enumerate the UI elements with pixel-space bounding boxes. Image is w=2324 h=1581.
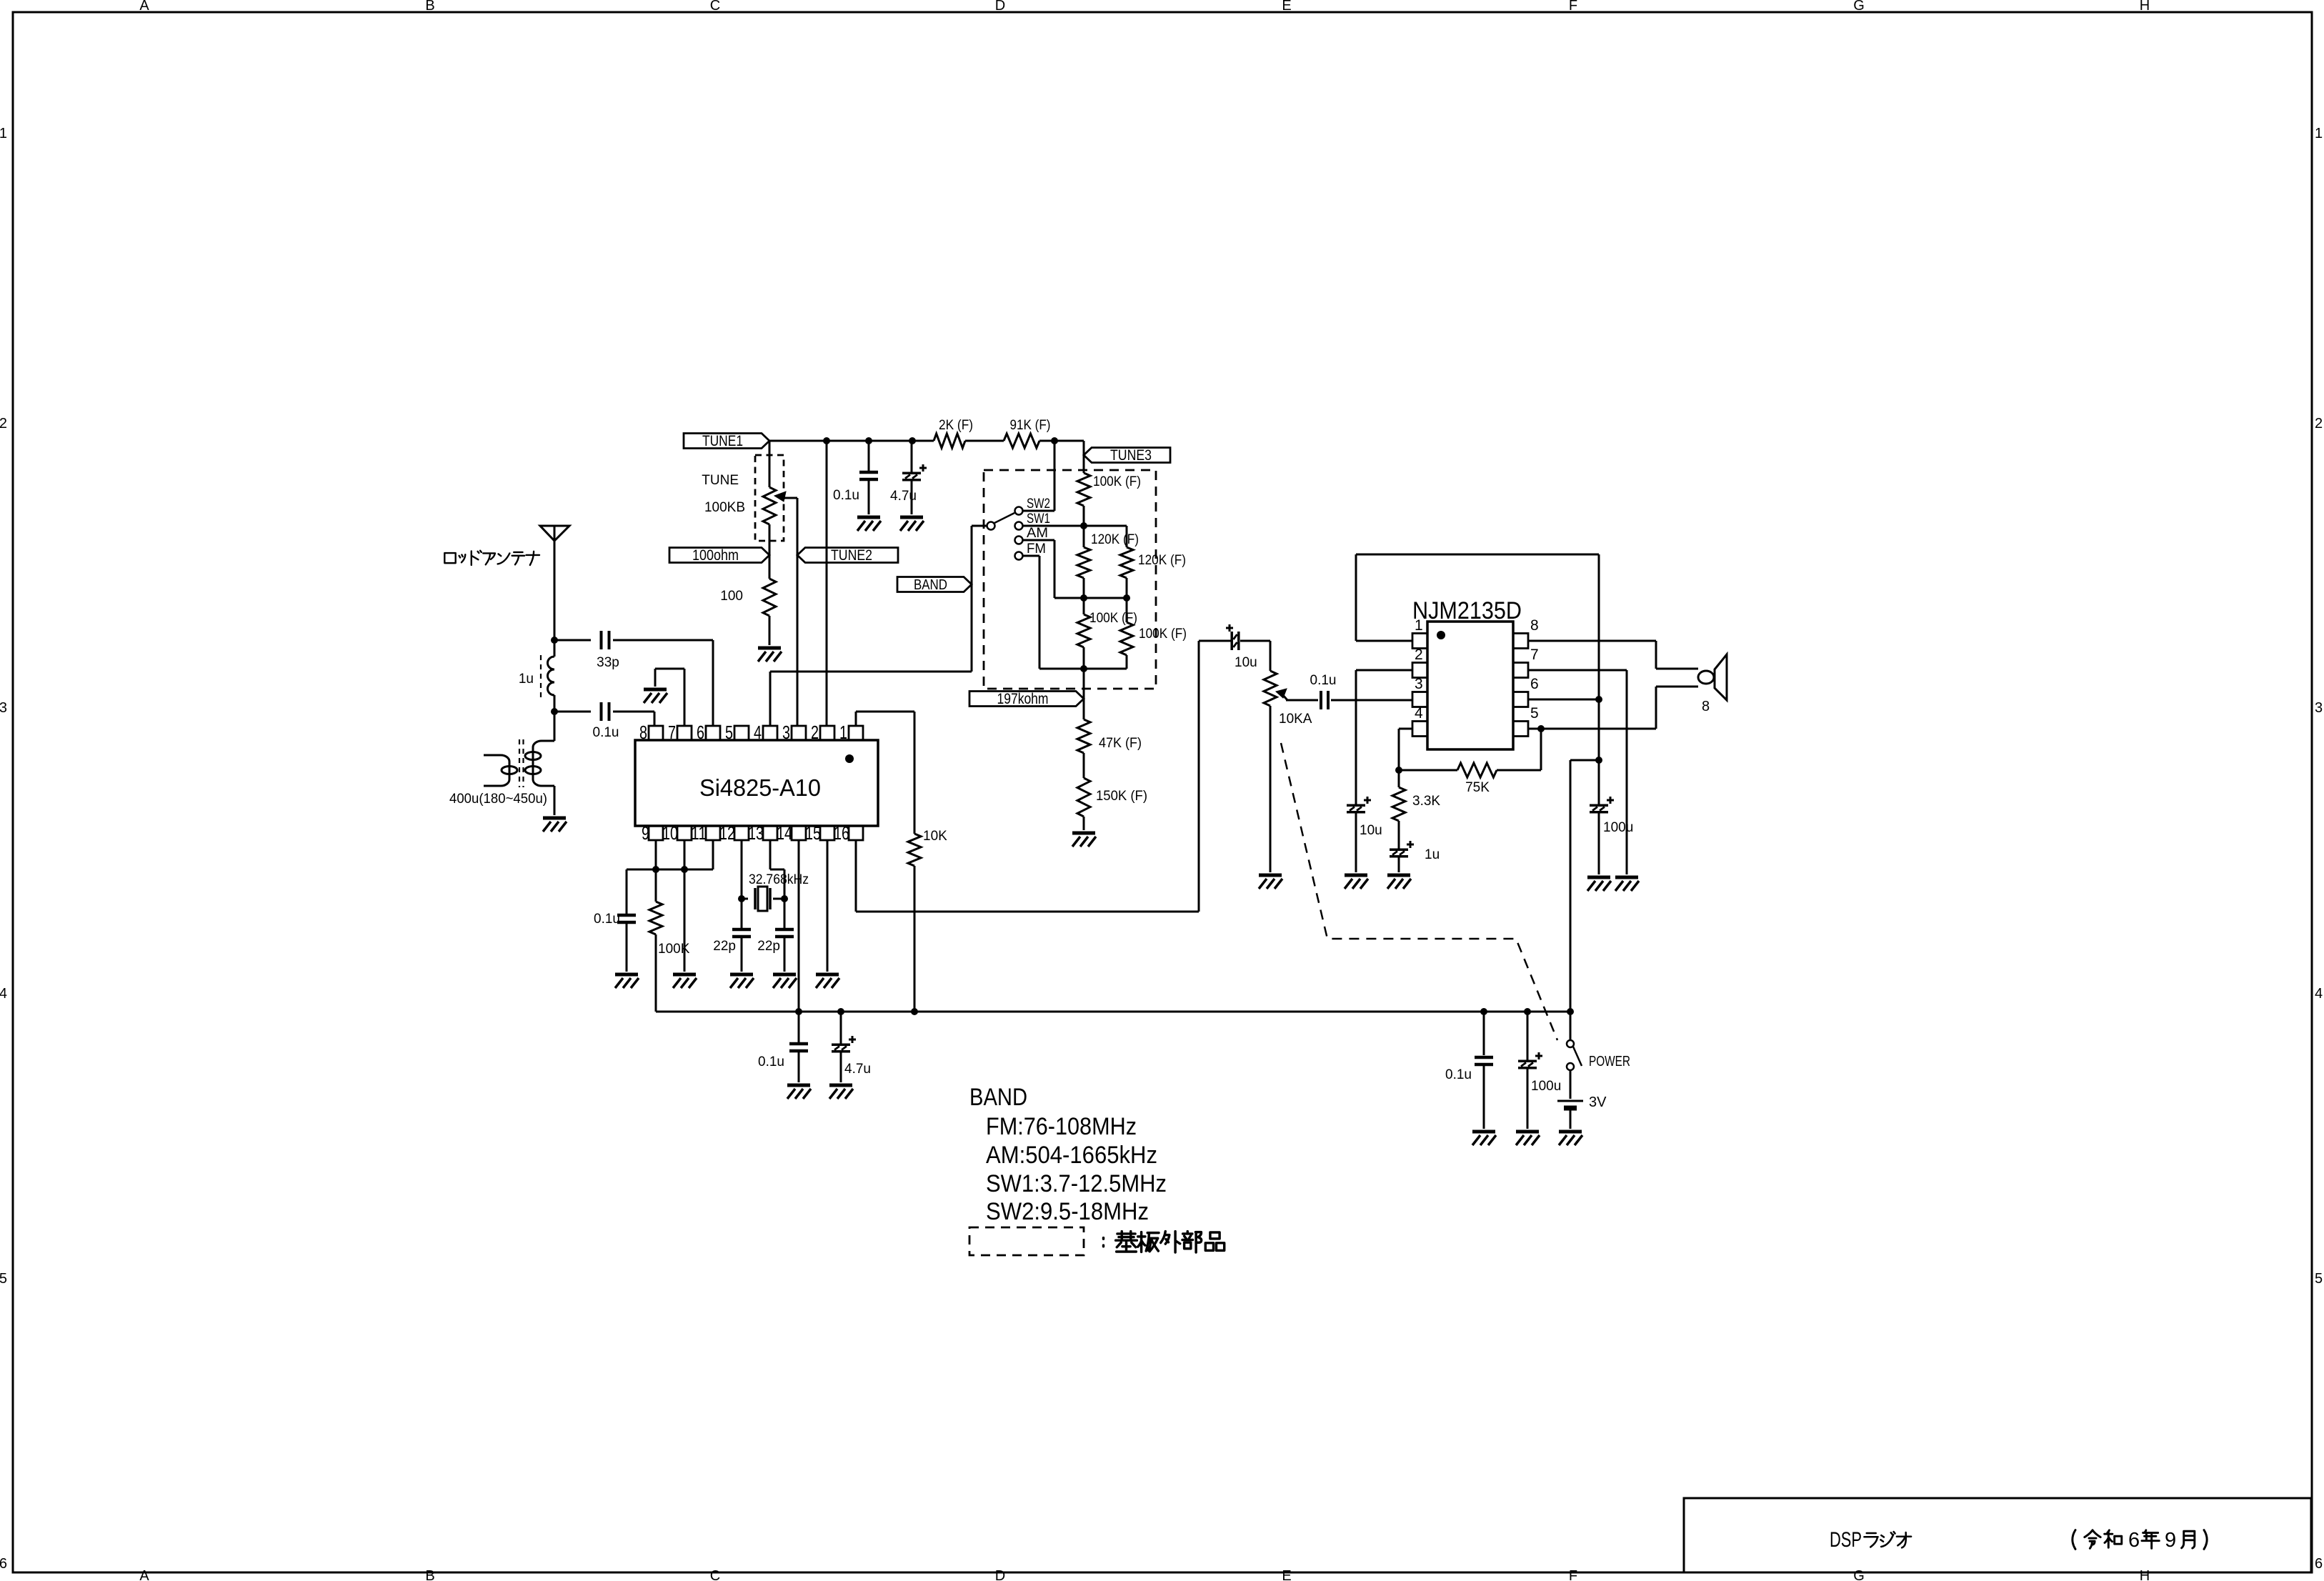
svg-text:2: 2 bbox=[2315, 416, 2323, 432]
svg-text:0.1u: 0.1u bbox=[593, 725, 619, 740]
svg-text:100u: 100u bbox=[1603, 820, 1633, 835]
svg-text:FM: FM bbox=[1027, 542, 1046, 557]
svg-text:2K (F): 2K (F) bbox=[939, 418, 973, 433]
svg-text:DSP: DSP bbox=[1830, 1528, 1862, 1552]
svg-text:BAND: BAND bbox=[969, 1084, 1027, 1111]
svg-text:15: 15 bbox=[805, 822, 821, 844]
svg-text:0.1u: 0.1u bbox=[1445, 1067, 1472, 1082]
svg-text:TUNE1: TUNE1 bbox=[702, 433, 743, 449]
svg-text:120K (F): 120K (F) bbox=[1091, 532, 1139, 547]
svg-text:B: B bbox=[425, 0, 434, 14]
svg-text:3: 3 bbox=[1415, 676, 1423, 692]
svg-text:0.1u: 0.1u bbox=[758, 1054, 784, 1069]
svg-text:10u: 10u bbox=[1360, 823, 1382, 838]
svg-text:2: 2 bbox=[1415, 647, 1423, 663]
svg-text:BAND: BAND bbox=[914, 577, 947, 593]
svg-text:2: 2 bbox=[811, 722, 819, 743]
svg-text:TUNE2: TUNE2 bbox=[831, 547, 872, 564]
svg-text:1: 1 bbox=[0, 126, 7, 141]
svg-text:0.1u: 0.1u bbox=[594, 912, 620, 927]
svg-text:120K (F): 120K (F) bbox=[1138, 553, 1186, 568]
svg-text:3V: 3V bbox=[1589, 1094, 1607, 1110]
svg-text:3: 3 bbox=[0, 700, 7, 716]
svg-text:4: 4 bbox=[0, 986, 7, 1002]
svg-text:TUNE: TUNE bbox=[702, 473, 739, 488]
svg-text:9: 9 bbox=[642, 822, 649, 844]
svg-text:SW2:9.5-18MHz: SW2:9.5-18MHz bbox=[986, 1198, 1149, 1225]
svg-text:B: B bbox=[425, 1568, 434, 1581]
svg-text:C: C bbox=[710, 1568, 720, 1581]
svg-text:Si4825-A10: Si4825-A10 bbox=[699, 774, 821, 801]
svg-text:6: 6 bbox=[697, 722, 704, 743]
svg-text:1: 1 bbox=[2315, 126, 2323, 141]
svg-text:100K (F): 100K (F) bbox=[1089, 611, 1137, 626]
svg-text:0.1u: 0.1u bbox=[833, 488, 859, 503]
svg-text:F: F bbox=[1569, 1568, 1577, 1581]
svg-text:91K (F): 91K (F) bbox=[1010, 418, 1051, 433]
svg-text:1: 1 bbox=[839, 722, 847, 743]
svg-text:F: F bbox=[1569, 0, 1577, 14]
svg-text:SW1: SW1 bbox=[1027, 512, 1050, 527]
svg-text:4.7u: 4.7u bbox=[890, 489, 917, 504]
svg-text:75K: 75K bbox=[1465, 780, 1490, 795]
svg-text:4: 4 bbox=[2315, 986, 2323, 1002]
svg-text:9: 9 bbox=[2165, 1529, 2176, 1552]
svg-text:NJM2135D: NJM2135D bbox=[1412, 597, 1522, 624]
svg-text:32.768kHz: 32.768kHz bbox=[749, 872, 809, 887]
svg-text:7: 7 bbox=[668, 722, 676, 743]
svg-text:E: E bbox=[1282, 1568, 1291, 1581]
svg-text:FM:76-108MHz: FM:76-108MHz bbox=[986, 1113, 1137, 1140]
svg-text:C: C bbox=[710, 0, 720, 14]
svg-text:7: 7 bbox=[1530, 647, 1539, 663]
svg-text:G: G bbox=[1853, 0, 1865, 14]
svg-text:E: E bbox=[1282, 0, 1291, 14]
svg-text:3.3K: 3.3K bbox=[1412, 794, 1440, 809]
svg-text:SW2: SW2 bbox=[1027, 497, 1050, 512]
svg-text:0.1u: 0.1u bbox=[1310, 673, 1337, 688]
svg-text:33p: 33p bbox=[597, 655, 619, 670]
svg-text:8: 8 bbox=[639, 722, 647, 743]
svg-text:D: D bbox=[995, 0, 1005, 14]
svg-text:11: 11 bbox=[691, 822, 707, 844]
svg-text:22p: 22p bbox=[713, 939, 736, 954]
svg-text:13: 13 bbox=[748, 822, 764, 844]
svg-text:5: 5 bbox=[2315, 1271, 2323, 1287]
svg-text:10KA: 10KA bbox=[1279, 712, 1312, 727]
svg-text:6: 6 bbox=[2128, 1529, 2140, 1552]
svg-text:16: 16 bbox=[834, 822, 849, 844]
svg-text:5: 5 bbox=[725, 722, 733, 743]
svg-text:100u: 100u bbox=[1531, 1079, 1561, 1094]
svg-text:SW1:3.7-12.5MHz: SW1:3.7-12.5MHz bbox=[986, 1170, 1167, 1197]
svg-text:POWER: POWER bbox=[1589, 1054, 1630, 1069]
svg-text:8: 8 bbox=[1530, 617, 1539, 634]
svg-text:47K (F): 47K (F) bbox=[1099, 736, 1142, 751]
svg-text:4: 4 bbox=[1415, 705, 1423, 722]
svg-text:400u(180~450u): 400u(180~450u) bbox=[449, 792, 547, 807]
svg-text:197kohm: 197kohm bbox=[997, 691, 1049, 707]
svg-text:100: 100 bbox=[720, 589, 743, 604]
svg-text:4.7u: 4.7u bbox=[844, 1062, 871, 1077]
svg-text:H: H bbox=[2140, 0, 2150, 14]
svg-text:1: 1 bbox=[1415, 617, 1423, 634]
svg-text:12: 12 bbox=[719, 822, 735, 844]
svg-text:6: 6 bbox=[2315, 1556, 2323, 1572]
svg-text:3: 3 bbox=[2315, 700, 2323, 716]
svg-text:H: H bbox=[2140, 1568, 2150, 1581]
svg-text:100K (F): 100K (F) bbox=[1139, 627, 1187, 642]
svg-text:150K (F): 150K (F) bbox=[1096, 789, 1147, 804]
svg-text:3: 3 bbox=[782, 722, 790, 743]
svg-text:TUNE3: TUNE3 bbox=[1110, 447, 1152, 464]
svg-text:6: 6 bbox=[0, 1556, 7, 1572]
svg-text:5: 5 bbox=[1530, 705, 1539, 722]
svg-text:A: A bbox=[139, 0, 149, 14]
svg-text:8: 8 bbox=[1702, 699, 1710, 714]
svg-text:2: 2 bbox=[0, 416, 7, 432]
svg-text:G: G bbox=[1853, 1568, 1865, 1581]
svg-text:10u: 10u bbox=[1235, 655, 1257, 670]
svg-text:5: 5 bbox=[0, 1271, 7, 1287]
svg-text:1u: 1u bbox=[519, 672, 534, 687]
svg-text:10: 10 bbox=[662, 822, 678, 844]
svg-text:100K: 100K bbox=[658, 942, 690, 957]
svg-text:A: A bbox=[139, 1568, 149, 1581]
svg-text:4: 4 bbox=[754, 722, 762, 743]
svg-text:100K (F): 100K (F) bbox=[1093, 474, 1141, 489]
svg-text:10K: 10K bbox=[923, 829, 947, 844]
svg-text:1u: 1u bbox=[1425, 847, 1440, 862]
svg-text:100KB: 100KB bbox=[704, 500, 745, 515]
svg-text:6: 6 bbox=[1530, 676, 1539, 692]
svg-text:14: 14 bbox=[777, 822, 792, 844]
svg-text:AM: AM bbox=[1027, 526, 1048, 541]
svg-text:D: D bbox=[995, 1568, 1005, 1581]
svg-text:22p: 22p bbox=[757, 939, 780, 954]
svg-text:AM:504-1665kHz: AM:504-1665kHz bbox=[986, 1142, 1157, 1169]
svg-text:100ohm: 100ohm bbox=[692, 547, 739, 564]
